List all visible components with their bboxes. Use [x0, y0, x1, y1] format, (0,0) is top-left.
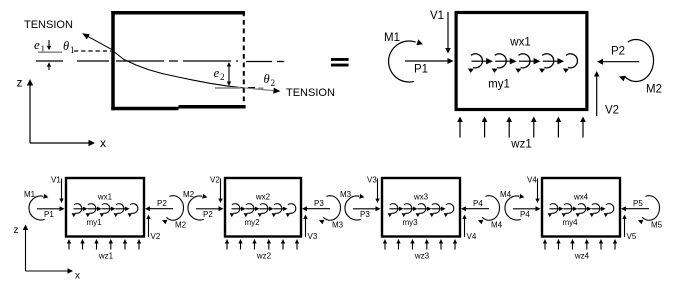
svg-text:wx1: wx1 [97, 193, 113, 202]
moment M2 arc at element 2 left [188, 194, 207, 220]
exit dashes [248, 87, 264, 90]
svg-text:2: 2 [220, 72, 225, 82]
moment M5 arc at element 4 right [638, 196, 660, 225]
shear V2 arrow [594, 71, 619, 117]
svg-text:M2: M2 [183, 190, 195, 199]
axial P1 arrow at element 1 left [37, 206, 65, 219]
TENSION arrow left (up-left) [82, 33, 113, 50]
svg-text:wz4: wz4 [574, 252, 590, 261]
shear V2 arrow (up) at element 1 right [146, 215, 161, 242]
svg-text:V3: V3 [367, 176, 377, 185]
TENSION arrow right (down-right) [244, 88, 281, 94]
beam element 1 rectangle [66, 178, 144, 237]
axial P3 arrow at element 3 left [353, 206, 381, 219]
svg-text:V5: V5 [627, 232, 637, 241]
shear V2 arrow (down) at element 2 left [210, 176, 223, 204]
axial P4 arrow at element 4 left [513, 206, 541, 219]
svg-text:wx3: wx3 [413, 193, 429, 202]
distributed moment my4 loops with wx4 arrows [548, 204, 614, 217]
shear V1 arrow (down) at element 1 left [51, 176, 64, 204]
svg-text:P1: P1 [414, 63, 428, 75]
moment M1 arc at element 1 left [29, 194, 48, 220]
svg-text:θ: θ [63, 39, 69, 53]
moment M2 arc at element 1 right [162, 196, 184, 225]
distributed load wz2 arrows [225, 239, 299, 250]
svg-text:z: z [17, 76, 23, 90]
svg-text:V2: V2 [605, 105, 619, 117]
svg-text:wx1: wx1 [509, 37, 530, 49]
entry tangent dashed line [74, 50, 111, 52]
e2 dimension double arrow [227, 62, 231, 86]
moment M4 arc at element 4 left [505, 194, 524, 220]
svg-text:P2: P2 [157, 199, 167, 208]
svg-text:wx4: wx4 [573, 193, 589, 202]
svg-text:my1: my1 [86, 218, 102, 227]
equals sign [331, 58, 349, 67]
beam element 2 rectangle [225, 178, 301, 237]
centerline (dash-dot) [36, 60, 284, 63]
beam outline (thick, dashed right edge) [111, 11, 245, 110]
svg-text:V2: V2 [151, 232, 161, 241]
svg-text:1: 1 [70, 45, 75, 55]
svg-text:P5: P5 [633, 199, 643, 208]
svg-text:z: z [14, 225, 19, 236]
svg-text:M4: M4 [491, 221, 503, 230]
svg-text:wx2: wx2 [255, 193, 271, 202]
beam element rectangle [456, 13, 587, 110]
tendon curve [113, 51, 244, 88]
svg-text:M2: M2 [646, 84, 662, 96]
distributed load wz3 arrows [383, 239, 457, 250]
svg-text:V1: V1 [430, 10, 444, 22]
svg-text:e: e [214, 65, 220, 80]
svg-text:x: x [75, 271, 80, 282]
svg-text:M2: M2 [175, 221, 187, 230]
svg-text:M4: M4 [500, 190, 512, 199]
svg-text:P2: P2 [611, 46, 625, 58]
x axis top-left [30, 136, 106, 150]
shear V1 arrow [430, 10, 451, 54]
e1 dimension arrows [47, 40, 51, 70]
shear V4 arrow (up) at element 3 right [462, 215, 477, 242]
svg-text:P3: P3 [314, 199, 324, 208]
svg-text:TENSION: TENSION [24, 19, 73, 31]
svg-text:wz1: wz1 [98, 252, 114, 261]
svg-text:M1: M1 [24, 190, 36, 199]
label e1 [34, 37, 45, 54]
svg-text:e: e [34, 37, 40, 52]
svg-text:x: x [100, 136, 106, 150]
svg-text:P1: P1 [44, 210, 54, 219]
svg-text:my4: my4 [562, 218, 578, 227]
moment M2 arc [619, 40, 654, 82]
axial P3 arrow at element 2 right [302, 199, 330, 211]
svg-text:my1: my1 [488, 79, 510, 91]
svg-text:V4: V4 [467, 232, 477, 241]
moment M1 arc [389, 39, 423, 82]
svg-text:P4: P4 [520, 210, 530, 219]
axial P4 arrow at element 3 right [461, 199, 489, 211]
moment M4 arc at element 3 right [478, 196, 500, 225]
shear V4 arrow (down) at element 4 left [527, 176, 540, 204]
beam element 4 rectangle [542, 178, 620, 237]
svg-text:M1: M1 [384, 32, 400, 44]
svg-text:V3: V3 [308, 232, 318, 241]
svg-text:wz2: wz2 [256, 252, 272, 261]
svg-text:my3: my3 [402, 218, 418, 227]
svg-text:M3: M3 [340, 190, 352, 199]
z axis bottom [14, 225, 29, 272]
svg-text:M5: M5 [651, 221, 663, 230]
svg-text:θ: θ [264, 72, 270, 86]
axial P1 arrow [405, 58, 454, 75]
e2 gray exit line [215, 87, 241, 89]
distributed load wz4 arrows [543, 239, 617, 250]
svg-text:2: 2 [271, 78, 276, 88]
shear V5 arrow (up) at element 4 right [622, 215, 637, 242]
svg-text:wz1: wz1 [510, 139, 531, 151]
distributed moment my1 loops with wx1 arrows [468, 54, 578, 73]
svg-text:wz3: wz3 [414, 252, 430, 261]
axial P2 arrow at element 2 left [196, 206, 224, 219]
axial P5 arrow at element 4 right [621, 199, 649, 211]
shear V3 arrow (down) at element 3 left [367, 176, 380, 204]
distributed moment my1 loops with wx1 arrows [72, 204, 138, 217]
svg-text:P2: P2 [203, 210, 213, 219]
svg-text:my2: my2 [244, 218, 260, 227]
svg-text:TENSION: TENSION [286, 87, 335, 99]
svg-text:M3: M3 [332, 221, 344, 230]
x axis bottom [26, 268, 81, 281]
z axis top-left [17, 76, 34, 144]
distributed load wz1 arrows [67, 239, 141, 250]
axial P2 arrow [597, 46, 639, 65]
svg-text:P4: P4 [473, 199, 483, 208]
distributed load wz1 arrows [457, 117, 586, 138]
svg-text:V2: V2 [210, 176, 220, 185]
svg-text:V1: V1 [51, 176, 61, 185]
svg-text:V4: V4 [527, 176, 537, 185]
moment M3 arc at element 2 right [319, 196, 341, 225]
axial P2 arrow at element 1 right [145, 199, 173, 211]
svg-text:P3: P3 [360, 210, 370, 219]
label theta1 [63, 39, 75, 55]
distributed moment my2 loops with wx2 arrows [230, 204, 296, 217]
beam element 3 rectangle [382, 178, 460, 237]
label theta2 [264, 72, 276, 88]
label e2 [214, 65, 225, 82]
shear V3 arrow (up) at element 2 right [303, 215, 318, 242]
e1 gray reference line [38, 51, 62, 53]
moment M3 arc at element 3 left [345, 194, 364, 220]
distributed moment my3 loops with wx3 arrows [388, 204, 454, 217]
